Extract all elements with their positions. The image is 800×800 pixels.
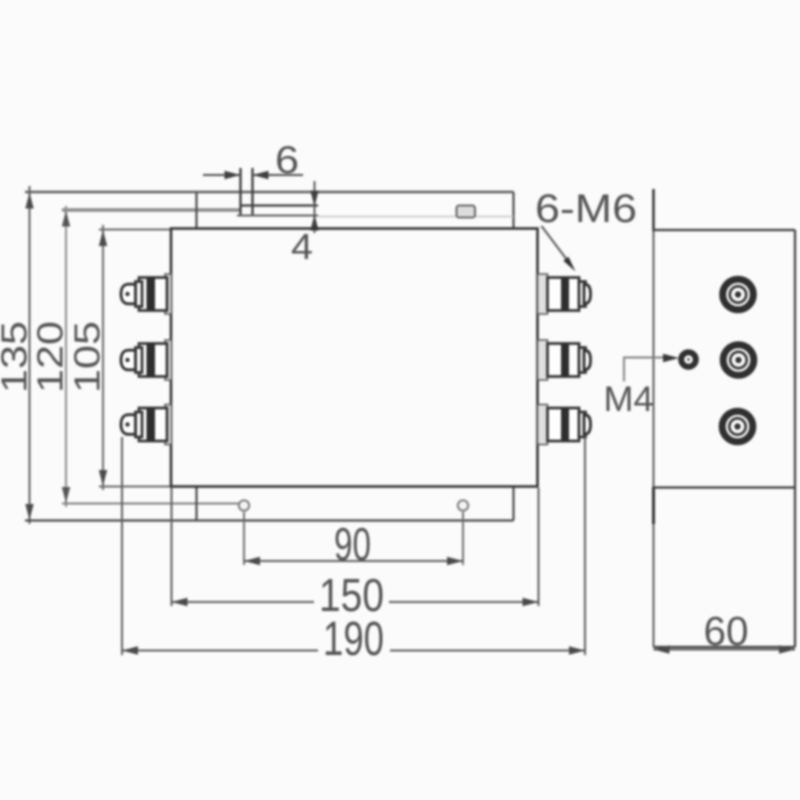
side terminal stud 3 — [722, 411, 753, 442]
dimension 90 extension right — [462, 512, 464, 565]
faint flange fold line — [318, 216, 514, 218]
side view left edge dark segment top (flange lip edge-on) — [652, 189, 655, 231]
svg-text:190: 190 — [323, 613, 384, 666]
dimension 150 line — [172, 598, 539, 606]
slot notch lower line — [237, 215, 318, 217]
mounting slot right edge — [251, 168, 253, 216]
svg-text:60: 60 — [704, 608, 749, 654]
dimension 135 bottom extension + flange bottom edge — [25, 519, 514, 521]
svg-text:4: 4 — [291, 226, 313, 267]
dimension 6 line left tail — [203, 171, 241, 179]
slot notch upper line — [241, 204, 319, 206]
side view left edge dark segment bottom (flange lip edge-on) — [652, 487, 655, 524]
dimension 90 line — [244, 557, 463, 565]
dimension 105 line — [99, 225, 107, 490]
dimension 190 extension right — [584, 437, 586, 655]
side view top edge — [654, 229, 796, 231]
dimension 6 line right tail — [253, 171, 304, 179]
terminal R3 — [538, 405, 591, 445]
dimension 120 line — [62, 206, 70, 507]
flange left edge (top lip) — [195, 192, 197, 229]
dimension 150 extension left — [171, 488, 173, 606]
terminal L2 — [121, 340, 172, 380]
leader 6-M6 — [542, 226, 576, 272]
terminal L1 — [121, 274, 172, 314]
svg-text:M4: M4 — [604, 380, 654, 419]
side view left edge — [653, 189, 655, 647]
dimension 190 extension left — [121, 437, 123, 655]
side terminal stud 2 — [723, 345, 754, 376]
flange right edge (bottom lip) — [512, 487, 514, 521]
terminal R2 — [538, 340, 591, 380]
dimension 105 top extension — [99, 229, 171, 231]
dimension 105 bottom extension — [99, 486, 171, 488]
svg-text:105: 105 — [67, 321, 108, 393]
filter body — [171, 229, 538, 487]
svg-text:90: 90 — [334, 518, 371, 570]
bottom mounting hole right — [458, 500, 468, 510]
dimension 190 line — [122, 646, 585, 654]
svg-text:120: 120 — [30, 321, 71, 393]
dimension 135 line — [25, 186, 33, 524]
small square hole in flange — [457, 206, 476, 218]
side view divider line — [654, 486, 796, 488]
leader M4 — [624, 354, 679, 382]
dimension 135 top extension + flange top edge — [25, 191, 514, 193]
flange left edge (bottom lip) — [195, 487, 197, 521]
dimension 150 extension right — [538, 488, 540, 606]
dimension 4 line — [310, 181, 318, 233]
dimension 120 bottom extension (to mounting hole) — [62, 503, 239, 505]
side view bottom edge — [654, 646, 796, 648]
side terminal stud 1 — [723, 279, 754, 310]
terminal R1 — [538, 274, 591, 314]
terminal L3 — [121, 405, 172, 445]
flange right edge (top lip) — [512, 192, 514, 229]
dimension 90 extension left — [243, 512, 245, 565]
dimension 60 line — [654, 645, 796, 653]
svg-text:6: 6 — [275, 139, 299, 182]
bottom mounting hole left — [239, 500, 249, 510]
side view right edge — [794, 230, 796, 647]
svg-text:6-M6: 6-M6 — [535, 187, 637, 231]
mounting slot left edge — [239, 168, 241, 216]
M4 ground stud — [681, 352, 696, 367]
dimension 120 top extension (grey, to slot) — [62, 208, 241, 211]
